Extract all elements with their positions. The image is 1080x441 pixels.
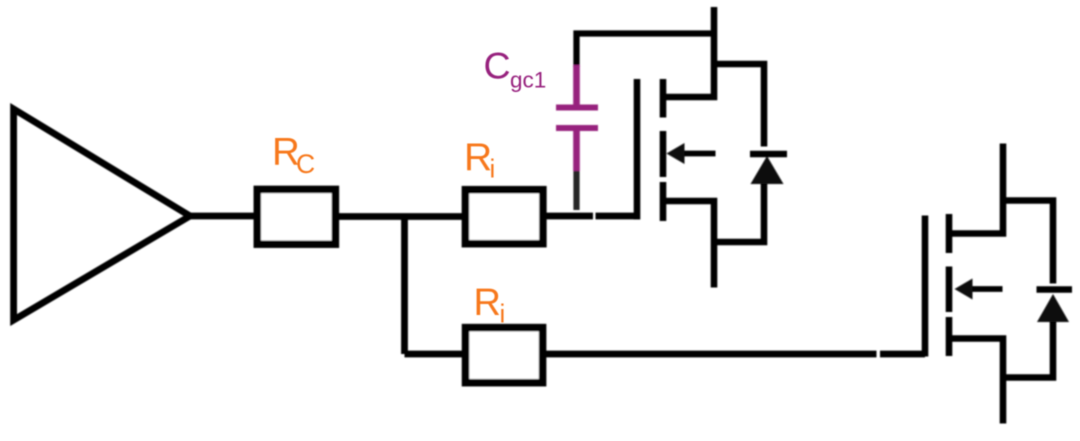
svg-text:C: C [296, 149, 315, 179]
svg-text:i: i [500, 299, 506, 329]
svg-text:R: R [474, 282, 501, 324]
svg-text:C: C [484, 45, 511, 87]
svg-text:R: R [464, 136, 492, 179]
svg-text:gc1: gc1 [510, 68, 546, 93]
svg-text:i: i [490, 154, 496, 184]
